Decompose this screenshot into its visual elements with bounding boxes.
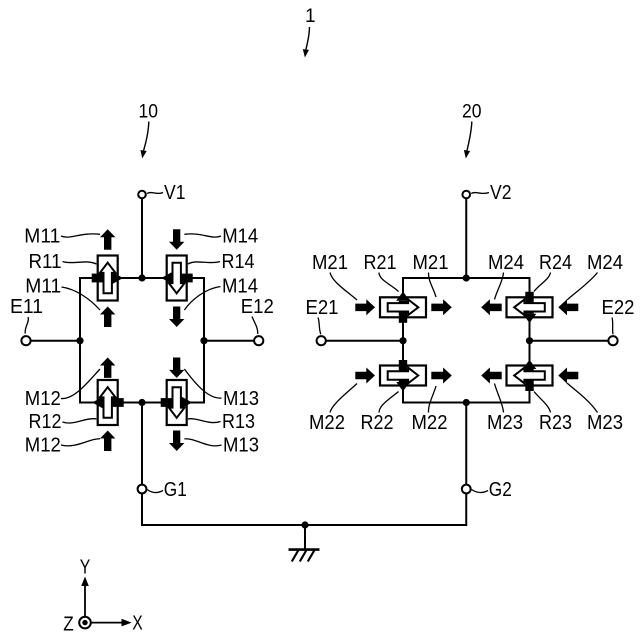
svg-text:M22: M22 (412, 412, 448, 434)
svg-text:M11: M11 (24, 226, 60, 248)
leader arrow for 20 (467, 122, 472, 151)
svg-text:M23: M23 (587, 412, 623, 434)
svg-text:Z: Z (63, 613, 74, 635)
leader V2 (471, 193, 489, 194)
junction E12 node (200, 337, 207, 344)
pinned arrow M12 above R12 (100, 358, 115, 378)
svg-text:10: 10 (139, 102, 159, 123)
leader R22 (379, 392, 399, 413)
leader R11 (63, 262, 97, 265)
wire V1 to bridge (141, 199, 143, 278)
pinned arrow M12 below R12 (100, 431, 115, 452)
terminal V2 (462, 191, 470, 199)
terminal E21 (317, 336, 326, 345)
svg-text:M24: M24 (587, 252, 623, 274)
wire bridge to E12 (204, 340, 254, 342)
leader E21 (318, 318, 321, 335)
MR element R12 (92, 380, 123, 425)
svg-text:M21: M21 (413, 252, 449, 274)
pinned arrow M23 right of R23 (558, 368, 578, 384)
svg-text:R13: R13 (222, 411, 255, 433)
svg-text:R21: R21 (364, 252, 397, 274)
pinned arrow M11 below R11 (100, 307, 115, 328)
leader R24 (534, 273, 551, 292)
svg-text:R12: R12 (29, 411, 62, 433)
svg-text:R24: R24 (539, 252, 572, 274)
junction ground rail (301, 521, 308, 528)
MR element R22 (380, 360, 426, 391)
leader arrow for 1 (306, 27, 310, 50)
wire bridge to E22 (530, 340, 609, 342)
terminal E22 (608, 336, 617, 345)
junction V1 node (138, 274, 145, 281)
pinned arrow M24 left of R24 (481, 299, 502, 315)
wire left-bridge loop (top/bottom/left/right sides) (80, 278, 204, 403)
svg-text:G1: G1 (164, 479, 187, 501)
MR element R11 (92, 256, 123, 301)
wire ground stub (304, 525, 306, 549)
svg-text:E21: E21 (306, 297, 339, 319)
junction G2 node (463, 399, 470, 406)
pinned arrow M22 left of R22 (355, 368, 375, 384)
svg-text:M21: M21 (312, 252, 348, 274)
wire bridge to G1 (141, 403, 143, 485)
junction E21 node (399, 337, 406, 344)
svg-text:20: 20 (462, 102, 482, 123)
wire right-bridge loop (top/bottom/left/right sides) (403, 278, 530, 403)
leader E12 (252, 317, 258, 335)
wire G1 to ground rail (141, 493, 143, 526)
wire ground rail (142, 524, 466, 526)
svg-text:1: 1 (305, 6, 316, 27)
wire V2 to bridge (465, 199, 467, 278)
leader R13 (188, 419, 221, 423)
leader E22 (612, 318, 613, 335)
svg-text:Y: Y (80, 557, 91, 579)
svg-text:M13: M13 (223, 388, 259, 410)
svg-text:E22: E22 (602, 297, 635, 319)
leader V1 (147, 193, 163, 194)
svg-text:G2: G2 (489, 479, 512, 501)
leader M23 right (567, 383, 598, 413)
svg-text:V1: V1 (164, 182, 186, 204)
leader M21 right (428, 273, 436, 298)
wire bridge to G2 (465, 403, 467, 485)
pinned arrow M24 right of R24 (558, 299, 578, 315)
svg-text:M14: M14 (222, 226, 258, 248)
leader M14 top (184, 234, 221, 237)
leader M11 top (61, 234, 100, 237)
leader M21 left (330, 273, 357, 301)
terminal G1 (138, 485, 147, 494)
leader E11 (25, 317, 28, 334)
pinned arrow M22 right of R22 (431, 368, 452, 384)
leader M12 top (61, 369, 100, 399)
leader R23 (534, 392, 551, 413)
ground symbol (289, 550, 320, 562)
pinned arrow M11 above R11 (100, 229, 115, 249)
wire E21 to bridge (326, 340, 403, 342)
leader R12 (63, 419, 97, 423)
leader G2 (472, 490, 489, 493)
leader M23 left (495, 384, 504, 413)
svg-text:R14: R14 (222, 251, 255, 273)
pinned arrow M21 right of R21 (431, 299, 452, 315)
terminal G2 (462, 485, 471, 494)
leader M22 right (428, 386, 436, 413)
junction G1 node (138, 399, 145, 406)
svg-text:M14: M14 (222, 276, 258, 298)
leader M13 top (184, 369, 221, 398)
svg-text:R22: R22 (361, 412, 394, 434)
svg-text:V2: V2 (490, 182, 512, 204)
leader M14 mid (184, 287, 220, 311)
terminal V1 (138, 191, 146, 199)
leader M24 left (495, 273, 504, 300)
leader M24 right (567, 273, 598, 301)
pinned arrow M14 above R14 (169, 229, 184, 249)
svg-text:E12: E12 (241, 296, 274, 318)
wire G2 to ground rail (465, 493, 467, 526)
svg-text:M13: M13 (223, 435, 259, 457)
svg-text:R23: R23 (539, 412, 572, 434)
svg-text:X: X (132, 613, 143, 635)
pinned arrow M13 below R13 (169, 431, 184, 452)
leader M12 bottom (61, 439, 100, 446)
leader M11 mid (62, 287, 101, 310)
axis origin Z circle (79, 617, 91, 629)
leader M22 left (330, 384, 357, 413)
terminal E12 (254, 336, 263, 345)
svg-text:M23: M23 (487, 412, 523, 434)
svg-text:E11: E11 (10, 296, 43, 318)
pinned arrow M13 above R13 (169, 358, 184, 378)
svg-text:M12: M12 (25, 435, 61, 457)
svg-text:M12: M12 (25, 388, 61, 410)
pinned arrow M23 left of R23 (481, 368, 502, 384)
leader arrow for 10 (144, 122, 149, 151)
terminal E11 (21, 336, 30, 345)
svg-text:M22: M22 (309, 412, 345, 434)
svg-text:M24: M24 (488, 252, 524, 274)
leader G1 (147, 490, 163, 493)
MR element R23 (507, 360, 553, 391)
pinned arrow M21 left of R21 (355, 299, 375, 315)
leader R21 (379, 273, 399, 292)
pinned arrow M14 below R14 (169, 307, 184, 328)
axis X arrow (91, 619, 131, 627)
junction V2 node (463, 274, 470, 281)
MR element R13 (161, 380, 192, 425)
svg-text:M11: M11 (25, 276, 61, 298)
MR element R14 (161, 256, 192, 301)
wire E11 to bridge (31, 340, 81, 342)
axis Y arrow (81, 577, 89, 617)
leader M13 bottom (184, 439, 221, 446)
junction E11 node (76, 337, 83, 344)
leader R14 (188, 262, 220, 265)
svg-text:R11: R11 (29, 251, 62, 273)
MR element R21 (380, 292, 426, 323)
MR element R24 (507, 292, 553, 323)
junction E22 node (526, 337, 533, 344)
